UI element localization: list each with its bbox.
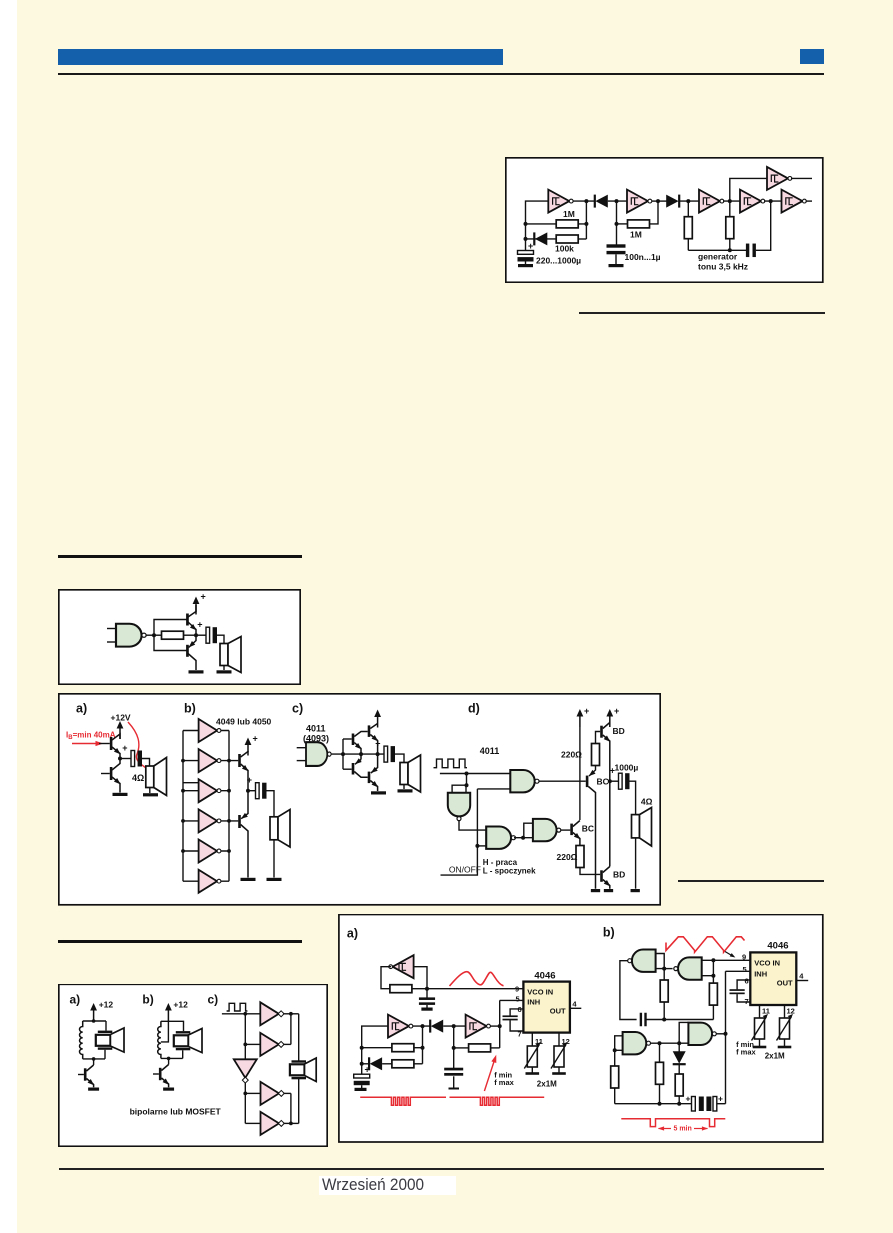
- left bus b: [182, 731, 184, 882]
- transistor T1: [110, 737, 113, 750]
- capacitor 100n...1u: [607, 244, 626, 254]
- INH wire b: [726, 970, 751, 972]
- transistor Q4 pnp b: [238, 815, 241, 828]
- bottom node wire a: [83, 1058, 105, 1060]
- svg-text:4049 lub 4050: 4049 lub 4050: [216, 717, 272, 727]
- buffer row3: [199, 779, 221, 802]
- capacitor b: [248, 790, 256, 792]
- buffer T4: [261, 1082, 285, 1105]
- power arrow a: [90, 1003, 97, 1021]
- svg-text:1M: 1M: [630, 230, 642, 240]
- inverter U1A: [548, 190, 573, 213]
- feedback vertical d: [441, 789, 478, 875]
- box C frame: [59, 694, 660, 905]
- svg-text:b): b): [142, 993, 153, 1007]
- capacitor C3: [746, 244, 756, 257]
- capacitor 220...1000u: [518, 251, 534, 262]
- svg-text:+: +: [584, 706, 589, 716]
- diode fb2 a: [362, 1063, 369, 1065]
- wire N1 out: [459, 821, 486, 831]
- inverter U1F: [782, 190, 807, 213]
- buffer row5: [199, 840, 221, 863]
- N2 out wire: [539, 780, 586, 782]
- buffer T5: [261, 1112, 285, 1135]
- wire gate c out: [332, 753, 385, 755]
- svg-text:a): a): [347, 927, 358, 941]
- svg-text:c): c): [292, 702, 303, 716]
- red gain curve: [128, 722, 163, 791]
- svg-text:VCO IN: VCO IN: [754, 959, 780, 968]
- svg-text:OUT: OUT: [550, 1007, 566, 1016]
- svg-text:tonu 3,5 kHz: tonu 3,5 kHz: [698, 262, 748, 272]
- svg-text:5: 5: [743, 965, 747, 974]
- footer text Wrzesien 2000: [322, 1176, 447, 1195]
- svg-text:+: +: [365, 1065, 370, 1075]
- svg-text:IB=min 40mA: IB=min 40mA: [66, 731, 116, 742]
- capacitor a ramp: [419, 997, 435, 1005]
- N2 lower input: [477, 788, 510, 790]
- IC 4046 a: [523, 982, 570, 1033]
- IC 4046 b: [750, 952, 796, 1005]
- svg-text:+: +: [253, 734, 258, 744]
- transistor Q1 npn: [186, 614, 189, 626]
- inductor L2: [158, 1021, 161, 1058]
- OUT wire a: [569, 1007, 581, 1009]
- buffer row4: [199, 809, 221, 832]
- resistor fb3 a: [454, 1047, 469, 1049]
- pins 11 12 b: [759, 1005, 761, 1018]
- inverter V1 left-pointing: [389, 955, 414, 978]
- NAND N4: [533, 819, 561, 841]
- resistor fb1 a: [362, 1047, 392, 1049]
- red sawtooth wave a: [450, 972, 504, 986]
- potentiometer P2: [551, 1042, 568, 1069]
- B1 inputs: [656, 954, 665, 969]
- right bus b: [228, 731, 230, 882]
- ground Q2: [189, 670, 204, 673]
- svg-text:b): b): [184, 702, 196, 716]
- INH vertical b: [725, 971, 727, 1103]
- ground 2 d: [604, 889, 613, 892]
- ground speaker: [217, 670, 232, 673]
- svg-text:100k: 100k: [555, 244, 574, 254]
- transistor Q3 npn b: [238, 754, 241, 767]
- diode D3: [666, 195, 679, 208]
- thick rule above box D: [58, 940, 302, 943]
- node V3 in down: [453, 1026, 455, 1068]
- header rule: [58, 73, 824, 75]
- bottom node wire b: [161, 1057, 183, 1059]
- buffer T2: [260, 1033, 284, 1056]
- svg-text:4046: 4046: [767, 941, 788, 952]
- electrolytic cap a: [361, 1064, 363, 1074]
- wire to node2: [608, 200, 627, 202]
- svg-text:BD: BD: [613, 726, 625, 736]
- ground T2: [113, 793, 128, 796]
- svg-text:BC: BC: [597, 777, 609, 787]
- svg-text:+12V: +12V: [111, 713, 131, 723]
- ground Q4: [241, 878, 256, 881]
- svg-text:220Ω: 220Ω: [557, 852, 578, 862]
- thick rule mid-left: [58, 555, 302, 558]
- svg-text:220...1000µ: 220...1000µ: [536, 256, 581, 266]
- svg-text:d): d): [468, 702, 480, 716]
- resistor 1M: [526, 223, 587, 225]
- capacitor C1 b: [640, 1013, 647, 1027]
- speaker a: [98, 1031, 113, 1033]
- resistor R1: [162, 631, 184, 639]
- main line to pin9: [427, 988, 523, 990]
- svg-text:4046: 4046: [534, 971, 555, 982]
- B3 out wire: [651, 1042, 689, 1044]
- power arrow b: [245, 738, 252, 756]
- svg-text:4011: 4011: [480, 746, 500, 756]
- speaker c: [400, 763, 408, 785]
- NAND B3: [623, 1032, 651, 1054]
- top node wire b: [161, 1021, 184, 1031]
- buffer row2: [199, 749, 221, 772]
- OUT wire b: [796, 980, 808, 982]
- box B frame: [59, 590, 300, 685]
- rule under box A: [579, 312, 825, 314]
- header blue bar: [58, 49, 503, 65]
- svg-text:6: 6: [745, 977, 749, 986]
- rule right of big box: [678, 880, 824, 882]
- resistor R3 vertical: [687, 201, 689, 217]
- svg-text:2x1M: 2x1M: [537, 1080, 557, 1089]
- inverter U1E top: [767, 167, 792, 190]
- resistor R4 b: [611, 1066, 619, 1088]
- bottom wire b: [615, 1103, 692, 1105]
- speaker branch wires a: [105, 1021, 107, 1031]
- V2 out wire: [413, 1025, 431, 1027]
- transistor BC upper: [586, 776, 589, 788]
- red arrow input: [72, 743, 99, 745]
- resistor R4 vertical: [726, 217, 734, 239]
- power tap wire b: [161, 1021, 169, 1042]
- potentiometer P4: [777, 1014, 794, 1041]
- svg-text:f max: f max: [494, 1078, 514, 1087]
- capacitor c: [375, 739, 395, 763]
- svg-text:a): a): [70, 993, 81, 1007]
- diode main a: [430, 1020, 443, 1033]
- bottom feedback bus: [688, 249, 746, 251]
- capacitor a: [120, 758, 131, 760]
- red pulse waveform b: [621, 1119, 725, 1127]
- bus below T3: [244, 1083, 246, 1124]
- svg-text:BD: BD: [613, 870, 625, 880]
- resistor fb2 a: [392, 1060, 414, 1068]
- INH wire a: [500, 999, 524, 1001]
- B4 out wire: [716, 1033, 725, 1035]
- BOX D: inductor circuits: [58, 984, 328, 1147]
- buffer row1: [199, 719, 221, 742]
- NAND B2 left-pointing: [674, 957, 702, 979]
- svg-text:12: 12: [787, 1007, 795, 1016]
- main line to pin9 b: [713, 959, 750, 961]
- V1 feedback loop: [381, 967, 391, 989]
- svg-text:b): b): [603, 926, 615, 940]
- power arrow A d: [577, 709, 584, 727]
- N4 out wire: [561, 829, 570, 831]
- transistor a: [93, 1059, 95, 1065]
- NAND N2: [510, 770, 539, 792]
- box D frame: [59, 984, 327, 1146]
- wire fb vertical: [585, 201, 587, 239]
- tie to N1: [466, 774, 468, 786]
- resistor 1M second: [617, 223, 628, 225]
- svg-text:1M: 1M: [563, 209, 575, 219]
- wire B1in to B2 out: [664, 968, 672, 970]
- pin6/7 cap b: [737, 980, 750, 989]
- buffer T1: [260, 1002, 284, 1025]
- svg-text:100n...1µ: 100n...1µ: [625, 252, 661, 262]
- svg-text:+: +: [528, 241, 533, 251]
- resistor R1 b: [663, 969, 665, 981]
- inverter V2: [388, 1015, 413, 1038]
- box E frame: [339, 915, 823, 1143]
- capacitor C2 a: [444, 1068, 463, 1076]
- red sawtooth b: [666, 937, 745, 952]
- svg-text:INH: INH: [527, 998, 540, 1007]
- footer white patch: [319, 1176, 456, 1195]
- svg-text:VCO IN: VCO IN: [527, 988, 553, 997]
- resistor 220 upper: [596, 732, 601, 744]
- transistor BD1: [600, 726, 603, 738]
- transistor b: [168, 1058, 170, 1064]
- NAND N3: [486, 827, 515, 849]
- svg-text:+12: +12: [173, 1000, 188, 1010]
- box A frame: [506, 158, 823, 282]
- node rail B: [608, 779, 612, 783]
- svg-text:generator: generator: [698, 252, 738, 262]
- svg-text:4Ω: 4Ω: [641, 797, 653, 807]
- INH vertical a: [499, 1000, 501, 1048]
- node mid: [194, 633, 198, 637]
- wire loop to bases: [154, 620, 187, 651]
- jog to N4 top input: [524, 823, 533, 838]
- inverter U1B: [627, 190, 652, 213]
- wire U1A out: [573, 200, 595, 202]
- potentiometer P3: [752, 1014, 769, 1041]
- transistor Q7: [352, 763, 355, 775]
- node out1: [584, 199, 588, 203]
- ground c: [371, 791, 386, 794]
- V1 input wire: [414, 967, 427, 998]
- ground 1 d: [591, 889, 600, 892]
- svg-text:+: +: [718, 1094, 723, 1104]
- svg-text:c): c): [208, 993, 219, 1007]
- ground a: [88, 1088, 99, 1091]
- speaker d: [632, 815, 640, 838]
- BOX E: 4046 circuits: [338, 914, 824, 1143]
- pins 11 12 a: [531, 1033, 533, 1047]
- header blue square right: [800, 49, 824, 64]
- transistor BD2: [600, 870, 603, 882]
- BOX B: gate + push-pull: [58, 589, 301, 685]
- transistor Q2 pnp: [186, 645, 189, 657]
- input wire c: [222, 1013, 260, 1015]
- wire tap up to U1E: [730, 178, 767, 201]
- svg-text:4011: 4011: [306, 724, 326, 734]
- input stubs b: [183, 731, 199, 882]
- power arrow: [193, 597, 200, 615]
- svg-text:4Ω: 4Ω: [132, 773, 144, 783]
- speaker c: [292, 1060, 307, 1062]
- square wave d: [434, 759, 468, 768]
- power arrow b: [165, 1003, 172, 1021]
- pin6/7 cap a: [510, 1009, 523, 1016]
- B1 output loop: [620, 961, 637, 1020]
- inverter T3 down: [234, 1059, 257, 1083]
- resistor R2 b: [712, 976, 714, 984]
- svg-text:+12: +12: [99, 1000, 114, 1010]
- power arrow a: [117, 721, 124, 739]
- node fb1: [584, 222, 588, 226]
- transistor Q5: [352, 734, 355, 746]
- black arrow to pin9: [725, 952, 734, 957]
- transistor Q8: [368, 772, 371, 784]
- B2 inputs: [702, 960, 714, 975]
- inverter V3: [466, 1015, 491, 1038]
- svg-text:OUT: OUT: [777, 979, 793, 988]
- svg-text:9: 9: [515, 985, 519, 994]
- svg-text:+: +: [201, 592, 206, 602]
- transistor BC lower: [570, 824, 573, 836]
- svg-text:5: 5: [516, 995, 520, 1004]
- power arrow B d: [606, 709, 613, 727]
- speaker b: [270, 817, 278, 840]
- diode D2: [595, 195, 608, 208]
- right bus c: [298, 1014, 300, 1061]
- NAND gate U1 inputs: [107, 628, 117, 630]
- red arrow a: [484, 1059, 495, 1092]
- svg-text:2x1M: 2x1M: [765, 1052, 785, 1061]
- B3 inputs: [615, 1036, 623, 1066]
- svg-text:a): a): [76, 702, 87, 716]
- speaker LS1: [220, 644, 228, 666]
- diode D1: [526, 238, 558, 240]
- top node wire a: [83, 1020, 106, 1022]
- BOX C: four amplifier variants: [58, 693, 661, 906]
- capacitor 1000u: [610, 780, 619, 782]
- ground b: [163, 1088, 174, 1091]
- svg-text:+: +: [614, 706, 619, 716]
- wire c vertical: [342, 739, 344, 769]
- resistor V1 fb: [390, 985, 412, 993]
- input line d: [440, 773, 510, 775]
- transistor T2: [110, 767, 113, 780]
- svg-text:ON/OFF: ON/OFF: [449, 865, 481, 875]
- resistor 100k: [556, 235, 578, 243]
- potentiometer P1: [524, 1042, 541, 1069]
- buffer row6: [199, 870, 221, 893]
- svg-text:5 min: 5 min: [674, 1126, 692, 1133]
- svg-text:220Ω: 220Ω: [561, 750, 582, 760]
- NAND N1 vertical: [448, 793, 470, 821]
- svg-text:L - spoczynek: L - spoczynek: [483, 867, 536, 876]
- svg-text:BC: BC: [582, 824, 594, 834]
- NAND B1 left-pointing: [628, 950, 656, 972]
- resistor 220 lower: [576, 846, 584, 868]
- jog to B4 top input: [679, 1022, 688, 1043]
- square wave c: [227, 1003, 248, 1011]
- V2 input loop: [362, 1026, 388, 1064]
- footer rule: [59, 1168, 824, 1170]
- NAND gate c inputs: [297, 747, 307, 749]
- capacitor C1: [196, 634, 206, 636]
- inductor L1: [80, 1021, 83, 1059]
- wire input loop inv U1A: [526, 201, 549, 251]
- svg-text:11: 11: [762, 1007, 770, 1016]
- NAND gate U1: [116, 624, 146, 647]
- svg-text:+: +: [686, 1094, 691, 1104]
- N3 out wire: [514, 837, 533, 839]
- NAND B4: [688, 1023, 716, 1045]
- NAND gate c: [306, 742, 331, 766]
- red pulse waveform a: [360, 1097, 446, 1105]
- inverter U1D: [740, 190, 765, 213]
- left bus c: [244, 1014, 246, 1060]
- power arrow c: [374, 710, 381, 728]
- speaker b: [176, 1031, 191, 1033]
- resistor R6 b: [678, 1064, 680, 1074]
- wire node2 down: [616, 201, 618, 244]
- bottom wire b osc: [647, 1019, 714, 1021]
- svg-text:f max: f max: [736, 1048, 756, 1057]
- speaker a: [146, 766, 154, 788]
- inverter U1C: [699, 190, 724, 213]
- svg-text:1000µ: 1000µ: [615, 763, 639, 773]
- BOX A: schmitt oscillator top right: [505, 157, 824, 283]
- svg-text:9: 9: [742, 953, 746, 962]
- wire gate out: [147, 634, 162, 636]
- transistor Q6: [368, 725, 371, 737]
- diode down b: [678, 1043, 680, 1052]
- svg-text:bipolarne lub MOSFET: bipolarne lub MOSFET: [130, 1107, 222, 1117]
- resistor R5 b: [659, 1043, 661, 1062]
- svg-text:INH: INH: [754, 970, 767, 979]
